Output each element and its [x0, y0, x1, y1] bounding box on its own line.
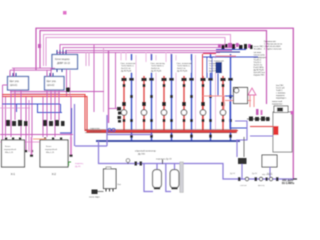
svg-text:Котел: Котел: [5, 146, 11, 148]
svg-text:подача ГВС: подача ГВС: [254, 75, 265, 77]
svg-text:2. Трубы стальные: 2. Трубы стальные: [264, 49, 282, 51]
svg-text:Котел водогр.: Котел водогр.: [55, 58, 70, 61]
svg-text:ША-К2: ША-К2: [47, 84, 55, 87]
svg-text:обр. клапан: обр. клапан: [262, 174, 272, 176]
svg-text:Ду 40: Ду 40: [75, 166, 81, 168]
svg-text:Котел: Котел: [46, 146, 52, 148]
svg-text:К-1: К-1: [11, 172, 15, 176]
svg-text:Ду 65 Ру16: Ду 65 Ру16: [151, 71, 162, 73]
svg-text:Ду 40: Ду 40: [252, 173, 257, 175]
svg-text:ДКВР 10-13: ДКВР 10-13: [57, 62, 71, 65]
svg-text:Щит упр.: Щит упр.: [10, 80, 20, 83]
svg-text:насос подп.: насос подп.: [89, 197, 100, 199]
svg-text:Grundfos: Grundfos: [254, 49, 262, 51]
svg-text:ША-К1: ША-К1: [10, 84, 18, 87]
svg-text:Ду 80 Ру16: Ду 80 Ру16: [121, 71, 132, 73]
svg-text:водогрейный: водогрейный: [4, 148, 16, 151]
svg-text:подогреват.: подогреват.: [272, 104, 283, 106]
svg-text:водогрейный: водогрейный: [45, 148, 57, 151]
svg-text:водоводян.: водоводян.: [276, 98, 287, 100]
svg-text:Ду 150: Ду 150: [138, 154, 146, 156]
svg-text:разделитель: разделитель: [90, 131, 102, 133]
svg-text:КВа-1,25: КВа-1,25: [46, 152, 55, 154]
svg-text:Бак: Бак: [118, 184, 121, 186]
svg-text:подающ.: подающ.: [75, 163, 84, 165]
svg-text:подпитка Ду 40: подпитка Ду 40: [156, 159, 172, 161]
svg-text:счетчик: счетчик: [240, 185, 247, 187]
svg-text:К-2: К-2: [52, 172, 56, 176]
svg-text:Ду 50: Ду 50: [230, 173, 235, 175]
svg-text:В1 0,4МПа: В1 0,4МПа: [282, 182, 295, 185]
svg-text:КВа-1,25: КВа-1,25: [5, 152, 14, 154]
svg-text:Ду 65 Ру16: Ду 65 Ру16: [177, 71, 188, 73]
svg-text:обратный коллектор: обратный коллектор: [135, 150, 157, 153]
svg-text:фильтр: фильтр: [258, 184, 264, 187]
svg-text:Щит упр.: Щит упр.: [47, 80, 57, 83]
